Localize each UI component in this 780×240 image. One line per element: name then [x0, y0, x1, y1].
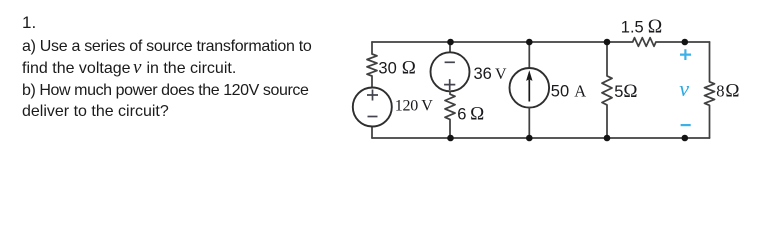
svg-text:1.5: 1.5	[621, 19, 644, 37]
svg-text:50: 50	[551, 83, 569, 101]
svg-text:8: 8	[716, 82, 724, 101]
svg-text:120 V: 120 V	[395, 98, 434, 115]
svg-text:A: A	[574, 82, 586, 101]
svg-text:Ω: Ω	[648, 17, 663, 38]
svg-text:6: 6	[457, 105, 466, 123]
svg-text:Ω: Ω	[470, 103, 484, 124]
svg-text:Ω: Ω	[402, 58, 416, 79]
svg-text:V: V	[495, 66, 507, 83]
svg-text:30: 30	[378, 60, 396, 78]
svg-text:5: 5	[614, 83, 623, 101]
svg-text:36: 36	[474, 65, 492, 83]
svg-text:v: v	[679, 76, 689, 101]
svg-text:Ω: Ω	[725, 81, 739, 102]
svg-text:Ω: Ω	[623, 81, 637, 102]
